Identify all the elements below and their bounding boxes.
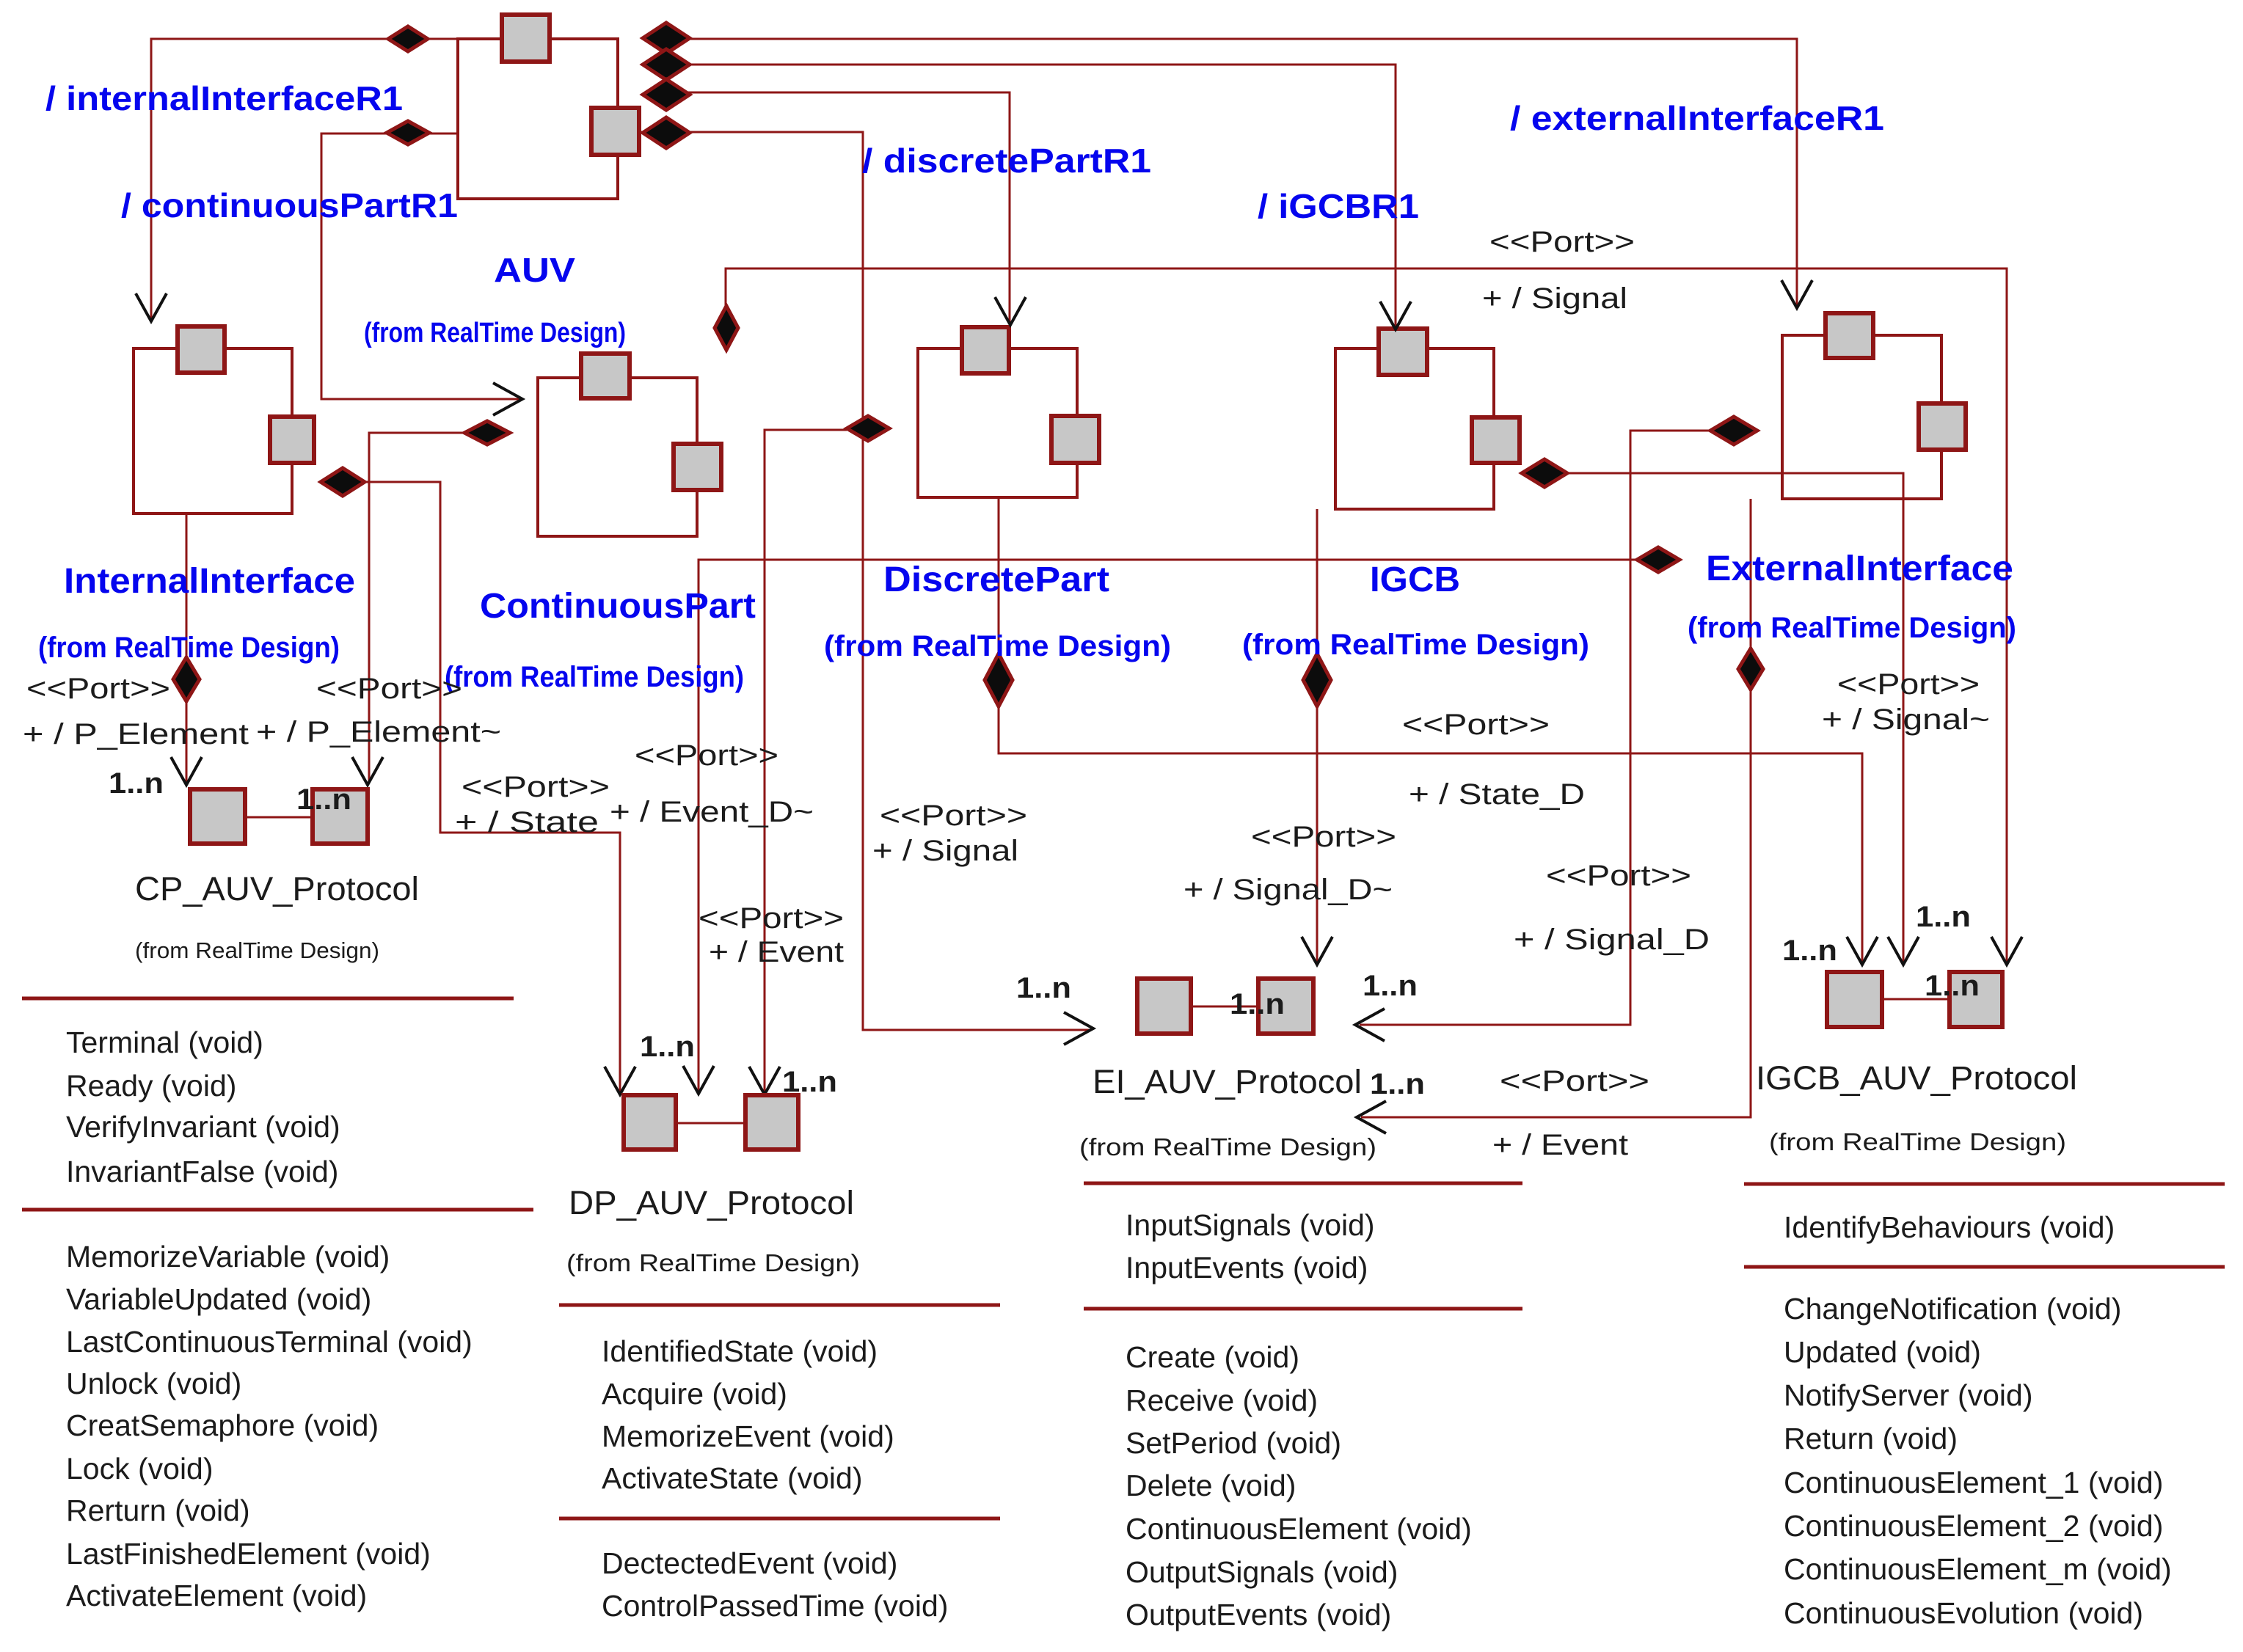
wire P_Element InternalInterface to CP_AUV_Protocol	[186, 513, 188, 782]
svg-text:ContinuousElement_1 (void): ContinuousElement_1 (void)	[1784, 1466, 2163, 1499]
svg-text:<<Port>>: <<Port>>	[462, 771, 610, 803]
wire P_Element~ ContinuousPart to CP_AUV_Protocol	[369, 433, 464, 782]
svg-text:+ / Event_D~: + / Event_D~	[610, 796, 814, 828]
svg-text:(from RealTime Design): (from RealTime Design)	[1688, 612, 2016, 644]
svg-text:LastFinishedElement (void): LastFinishedElement (void)	[66, 1537, 431, 1571]
port DiscretePart right	[1051, 416, 1099, 463]
arrow into CP_AUV sq2	[352, 757, 383, 785]
svg-text:+ / Signal~: + / Signal~	[1822, 703, 1990, 736]
arrow into EI_AUV sq2 right lower	[1357, 1101, 1386, 1133]
svg-text:ActivateState (void): ActivateState (void)	[602, 1461, 863, 1495]
svg-text:Ready (void): Ready (void)	[66, 1069, 236, 1103]
svg-text:<<Port>>: <<Port>>	[316, 673, 462, 705]
svg-text:SetPeriod (void): SetPeriod (void)	[1126, 1426, 1341, 1460]
svg-text:Updated (void): Updated (void)	[1784, 1335, 1981, 1369]
diamond InternalInterface State	[321, 468, 365, 496]
svg-text:InputEvents (void): InputEvents (void)	[1126, 1251, 1368, 1284]
svg-text:+ / Signal: + / Signal	[872, 835, 1018, 867]
port ExternalInterface top	[1826, 313, 1873, 358]
svg-text:<<Port>>: <<Port>>	[1489, 226, 1635, 258]
port AUV right	[591, 108, 639, 155]
diamond AUV-continuousPartR1	[387, 121, 429, 145]
svg-text:EI_AUV_Protocol: EI_AUV_Protocol	[1093, 1063, 1362, 1100]
svg-text:<<Port>>: <<Port>>	[1251, 821, 1396, 853]
DP_AUV_Protocol square2	[745, 1095, 798, 1150]
diamond AUV-internalInterfaceR1	[388, 26, 428, 51]
svg-text:NotifyServer (void): NotifyServer (void)	[1784, 1378, 2032, 1412]
wire Event ExternalInterface to EI_AUV_Protocol	[1361, 499, 1751, 1117]
port ExternalInterface right	[1919, 403, 1966, 450]
svg-text:+ / State: + / State	[455, 806, 599, 838]
port IGCB top	[1379, 329, 1427, 375]
wire discretePartR1	[645, 92, 1010, 324]
IGCB separator 1	[1744, 1183, 2225, 1186]
svg-text:(from RealTime Design): (from RealTime Design)	[824, 630, 1171, 662]
wire AUV to EI_AUV_Protocol	[639, 132, 1090, 1030]
DP_AUV_Protocol link	[676, 1122, 745, 1125]
diamond DiscretePart Signal	[985, 654, 1013, 706]
svg-text:AUV: AUV	[494, 251, 575, 289]
svg-text:InternalInterface: InternalInterface	[64, 562, 355, 601]
diamond ContinuousPart Signal	[715, 306, 738, 350]
port DiscretePart top	[962, 327, 1009, 373]
svg-text:(from RealTime Design): (from RealTime Design)	[1769, 1128, 2066, 1155]
svg-text:IGCB: IGCB	[1370, 560, 1460, 599]
svg-text:LastContinuousTerminal (void): LastContinuousTerminal (void)	[66, 1325, 473, 1359]
port IGCB right	[1472, 417, 1520, 463]
svg-text:IdentifyBehaviours (void): IdentifyBehaviours (void)	[1784, 1210, 2115, 1244]
svg-text:1..n: 1..n	[1782, 935, 1837, 967]
wire internalInterfaceR1	[151, 39, 502, 321]
CP separator 2	[22, 1208, 533, 1212]
capsule AUV	[458, 39, 618, 199]
svg-text:InputSignals (void): InputSignals (void)	[1126, 1208, 1375, 1242]
svg-text:(from RealTime Design): (from RealTime Design)	[1242, 629, 1589, 661]
CP_AUV_Protocol square1	[190, 789, 245, 844]
DP separator 1	[559, 1304, 1000, 1307]
IGCB_AUV_Protocol square2	[1950, 972, 2002, 1027]
EI_AUV_Protocol square1	[1137, 979, 1191, 1034]
svg-text:(from RealTime Design): (from RealTime Design)	[566, 1249, 860, 1276]
svg-text:1..n: 1..n	[296, 783, 351, 816]
arrow into CP_AUV sq1	[171, 757, 202, 785]
svg-text:(from RealTime Design): (from RealTime Design)	[364, 318, 626, 348]
svg-text:<<Port>>: <<Port>>	[1837, 668, 1980, 701]
svg-text:IGCB_AUV_Protocol: IGCB_AUV_Protocol	[1756, 1059, 2077, 1097]
arrow into InternalInterface	[136, 293, 167, 321]
svg-text:DP_AUV_Protocol: DP_AUV_Protocol	[569, 1184, 854, 1221]
svg-text:/ continuousPartR1: / continuousPartR1	[121, 186, 458, 224]
IGCB separator 2	[1744, 1265, 2225, 1269]
svg-text:ContinuousElement_2 (void): ContinuousElement_2 (void)	[1784, 1509, 2163, 1543]
EI_AUV_Protocol link	[1191, 1006, 1258, 1008]
svg-text:+ / P_Element: + / P_Element	[23, 718, 249, 750]
IGCB_AUV_Protocol link	[1882, 998, 1950, 1001]
diamond DiscretePart Event_D~	[847, 416, 889, 441]
capsule IGCB	[1335, 348, 1494, 509]
svg-text:OutputSignals (void): OutputSignals (void)	[1126, 1555, 1398, 1589]
svg-text:ExternalInterface: ExternalInterface	[1706, 549, 2013, 588]
diamond InternalInterface P_Element	[173, 657, 200, 701]
capsule DiscretePart	[918, 348, 1077, 497]
diamond IGCB port	[1522, 459, 1567, 487]
svg-text:<<Port>>: <<Port>>	[880, 800, 1027, 832]
svg-text:MemorizeEvent (void): MemorizeEvent (void)	[602, 1419, 894, 1453]
svg-text:Create (void): Create (void)	[1126, 1340, 1299, 1374]
wire Signal_D~ IGCB to EI_AUV_Protocol	[1316, 509, 1319, 962]
arrow into ExternalInterface	[1781, 280, 1812, 308]
svg-text:<<Port>>: <<Port>>	[1402, 709, 1550, 741]
port InternalInterface top	[178, 326, 225, 373]
svg-text:+ / Signal_D~: + / Signal_D~	[1183, 874, 1393, 906]
svg-text:(from RealTime Design): (from RealTime Design)	[38, 632, 340, 664]
svg-text:+ / P_Element~: + / P_Element~	[256, 716, 501, 748]
svg-text:Rerturn (void): Rerturn (void)	[66, 1494, 250, 1527]
arrow into DP_AUV middle	[683, 1066, 714, 1094]
diamond ContinuousPart P_Element~	[464, 421, 510, 445]
capsule ExternalInterface	[1782, 335, 1941, 499]
diamond AUV-iGCBR1	[643, 49, 690, 80]
svg-text:+ / Signal: + / Signal	[1482, 282, 1627, 315]
wire ExternalInterface to DP_AUV_Protocol	[699, 560, 1639, 1091]
svg-text:MemorizeVariable (void): MemorizeVariable (void)	[66, 1240, 390, 1273]
svg-text:<<Port>>: <<Port>>	[635, 739, 778, 772]
svg-text:CP_AUV_Protocol: CP_AUV_Protocol	[135, 870, 419, 907]
svg-text:+ / State_D: + / State_D	[1409, 778, 1585, 811]
arrow into IGCB	[1380, 301, 1411, 329]
capsule ContinuousPart	[538, 378, 697, 536]
svg-text:Return (void): Return (void)	[1784, 1422, 1958, 1455]
arrow into EI_AUV sq2 right upper	[1355, 1009, 1385, 1041]
svg-text:Terminal (void): Terminal (void)	[66, 1026, 263, 1059]
EI separator 2	[1084, 1307, 1522, 1311]
svg-text:<<Port>>: <<Port>>	[26, 673, 170, 705]
svg-text:InvariantFalse (void): InvariantFalse (void)	[66, 1155, 338, 1188]
arrow into IGCB_AUV middle	[1888, 937, 1919, 965]
port ContinuousPart right	[674, 444, 721, 490]
svg-text:ControlPassedTime (void): ControlPassedTime (void)	[602, 1589, 948, 1623]
diamond ExternalInterface Signal_D	[1710, 417, 1757, 445]
wire Signal DiscretePart to IGCB_AUV_Protocol	[999, 497, 1862, 962]
port ContinuousPart top	[581, 354, 630, 398]
svg-text:(from RealTime Design): (from RealTime Design)	[1079, 1133, 1376, 1161]
svg-text:1..n: 1..n	[1016, 972, 1071, 1004]
svg-text:Lock (void): Lock (void)	[66, 1452, 214, 1485]
svg-text:1..n: 1..n	[1370, 1068, 1425, 1100]
port InternalInterface right	[270, 417, 314, 463]
svg-text:ContinuousElement (void): ContinuousElement (void)	[1126, 1512, 1472, 1546]
arrow into DiscretePart	[995, 297, 1026, 325]
svg-text:ContinuousEvolution (void): ContinuousEvolution (void)	[1784, 1596, 2143, 1630]
svg-text:(from RealTime Design): (from RealTime Design)	[135, 938, 379, 963]
arrow into ContinuousPart	[493, 383, 522, 415]
arrow into DP_AUV sq1	[605, 1067, 635, 1094]
svg-text:ContinuousPart: ContinuousPart	[480, 587, 756, 626]
wire State InternalInterface to DP_AUV_Protocol	[365, 482, 620, 1092]
svg-text:IdentifiedState (void): IdentifiedState (void)	[602, 1334, 878, 1368]
svg-text:DiscretePart: DiscretePart	[883, 560, 1109, 599]
wire Event_D~ DiscretePart to DP_AUV_Protocol	[765, 430, 847, 1092]
diamond ExternalInterface-DP link	[1637, 547, 1679, 572]
DP_AUV_Protocol square1	[624, 1095, 676, 1150]
diamond AUV-externalInterfaceR1	[643, 23, 690, 54]
svg-text:ActivateElement (void): ActivateElement (void)	[66, 1579, 367, 1612]
svg-text:/ iGCBR1: / iGCBR1	[1258, 187, 1419, 225]
svg-text:(from RealTime Design): (from RealTime Design)	[445, 661, 744, 693]
wire continuousPartR1	[321, 134, 519, 399]
svg-text:1..n: 1..n	[1925, 970, 1980, 1002]
wire Signal_D ExternalInterface to EI_AUV_Protocol	[1360, 431, 1713, 1025]
DP separator 2	[559, 1517, 1000, 1521]
svg-text:ContinuousElement_m (void): ContinuousElement_m (void)	[1784, 1552, 2172, 1586]
diamond IGCB Signal_D~	[1303, 654, 1331, 706]
svg-text:1..n: 1..n	[640, 1031, 695, 1063]
EI separator 1	[1084, 1182, 1522, 1185]
EI_AUV_Protocol square2	[1258, 979, 1313, 1034]
svg-text:Delete (void): Delete (void)	[1126, 1469, 1296, 1502]
svg-text:<<Port>>: <<Port>>	[1500, 1065, 1649, 1097]
capsule InternalInterface	[134, 348, 292, 513]
wire externalInterfaceR1	[645, 39, 1797, 307]
svg-text:Receive (void): Receive (void)	[1126, 1384, 1318, 1417]
arrow into DP_AUV sq2	[749, 1067, 780, 1094]
svg-text:<<Port>>: <<Port>>	[1546, 860, 1691, 892]
svg-text:/ internalInterfaceR1: / internalInterfaceR1	[45, 79, 403, 117]
svg-text:+ / Event: + / Event	[1492, 1129, 1628, 1161]
svg-text:1..n: 1..n	[1363, 970, 1418, 1002]
svg-text:DectectedEvent (void): DectectedEvent (void)	[602, 1546, 897, 1580]
svg-text:1..n: 1..n	[1916, 901, 1971, 933]
arrow into EI_AUV sq1	[1064, 1012, 1093, 1045]
svg-text:OutputEvents (void): OutputEvents (void)	[1126, 1598, 1391, 1631]
CP separator 1	[22, 997, 514, 1001]
arrow into EI_AUV sq2 top	[1302, 937, 1332, 965]
port AUV top	[502, 15, 550, 62]
svg-text:1..n: 1..n	[1230, 988, 1285, 1020]
IGCB_AUV_Protocol square1	[1827, 972, 1882, 1027]
svg-text:<<Port>>: <<Port>>	[699, 902, 844, 935]
svg-text:1..n: 1..n	[109, 767, 164, 800]
svg-text:VariableUpdated (void): VariableUpdated (void)	[66, 1282, 371, 1316]
wire iGCBR1	[645, 65, 1396, 327]
svg-text:+ / Signal_D: + / Signal_D	[1514, 924, 1710, 956]
svg-text:+ / Event: + / Event	[709, 936, 844, 968]
svg-text:Unlock (void): Unlock (void)	[66, 1367, 241, 1400]
arrow into IGCB_AUV sq2	[1991, 937, 2022, 965]
diamond ExternalInterface Event	[1738, 648, 1763, 690]
svg-text:1..n: 1..n	[782, 1066, 837, 1098]
wire IGCB port to IGCB_AUV_Protocol	[1567, 473, 1903, 962]
wire Signal ContinuousPart to IGCB_AUV_Protocol	[726, 268, 2007, 962]
CP_AUV_Protocol square2	[313, 789, 368, 844]
svg-text:CreatSemaphore (void): CreatSemaphore (void)	[66, 1408, 379, 1442]
svg-text:ChangeNotification (void): ChangeNotification (void)	[1784, 1292, 2121, 1326]
svg-text:/ externalInterfaceR1: / externalInterfaceR1	[1510, 99, 1884, 137]
diamond AUV-discretePartR1	[643, 79, 690, 110]
diamond AUV-EI link	[643, 117, 690, 148]
arrow into IGCB_AUV sq1	[1847, 937, 1878, 965]
svg-text:Acquire (void): Acquire (void)	[602, 1377, 787, 1411]
CP_AUV_Protocol link	[245, 816, 313, 819]
svg-text:/ discretePartR1: / discretePartR1	[862, 142, 1151, 180]
svg-text:VerifyInvariant (void): VerifyInvariant (void)	[66, 1110, 340, 1144]
